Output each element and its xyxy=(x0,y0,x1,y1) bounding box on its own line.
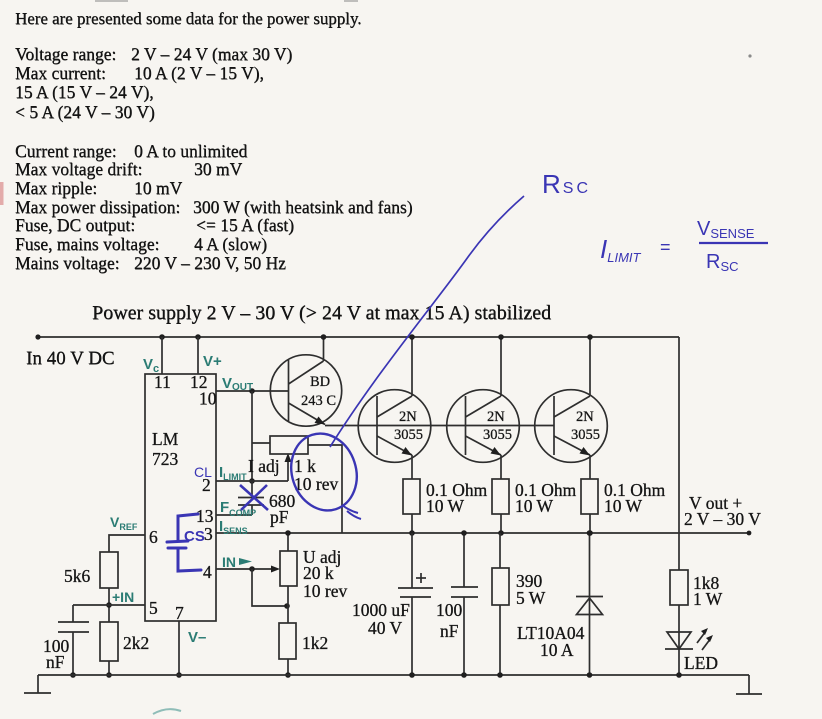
svg-text:IN: IN xyxy=(222,554,236,570)
svg-text:10: 10 xyxy=(199,389,217,409)
svg-text:+IN: +IN xyxy=(112,589,134,605)
svg-text:RSC: RSC xyxy=(542,169,591,199)
value label 100 nF xyxy=(43,636,70,672)
capacitor C2 680pF leads xyxy=(216,481,252,515)
svg-text:100: 100 xyxy=(436,600,463,620)
resistor R10 1k8 body xyxy=(670,570,723,609)
net label V- xyxy=(188,629,206,646)
wire: Q2 emitter to R6 xyxy=(411,455,413,479)
resistor R9 390 5W xyxy=(492,533,546,678)
svg-text:2k2: 2k2 xyxy=(123,633,149,653)
resistor R3 2k2 body xyxy=(100,622,149,661)
svg-text:LM: LM xyxy=(152,429,179,449)
node: pin4 junction xyxy=(249,566,255,572)
resistor R7 0.1 Ohm body xyxy=(492,479,577,516)
annotation: blue leader curve to Rsc xyxy=(330,196,524,447)
svg-text:LED: LED xyxy=(684,653,718,673)
capacitor C4 100nF plates xyxy=(451,587,478,597)
svg-text:10 rev: 10 rev xyxy=(294,474,338,494)
resistor R6 0.1 Ohm body xyxy=(403,479,488,516)
wire: pin6 Vref xyxy=(109,535,145,552)
wire: 2k2 to ground rail xyxy=(106,661,112,678)
capacitor C4 100nF leads xyxy=(461,530,467,678)
annotation: CS capacitor sketch pin13 to pin4 xyxy=(167,514,205,571)
pin 6 xyxy=(149,527,158,547)
svg-text:CL: CL xyxy=(194,464,212,480)
annotation: faint teal squiggle bottom xyxy=(153,709,181,714)
annotation: handwritten Rsc xyxy=(542,169,591,199)
svg-text:10 W: 10 W xyxy=(604,496,643,516)
diode D1 LT10A04 leads xyxy=(587,530,593,678)
svg-text:6: 6 xyxy=(149,527,158,547)
wire: Q3 collector to rail xyxy=(498,334,504,396)
transistor Q4 2N3055 xyxy=(535,390,608,463)
wire: wiper riser with arrow xyxy=(285,453,292,481)
svg-text:VSENSE: VSENSE xyxy=(697,218,755,241)
wire: 1k8 to LED xyxy=(678,605,680,649)
wire: pin2 CL to pot wiper riser xyxy=(216,480,288,482)
transistor Q2 2N3055 xyxy=(358,390,431,463)
net label Vc xyxy=(143,356,159,375)
label I adj 1k 10rev xyxy=(248,456,338,494)
svg-text:1000 uF: 1000 uF xyxy=(352,600,410,620)
svg-text:Vc: Vc xyxy=(143,356,159,375)
net label V+ xyxy=(203,353,222,370)
wire: wiper link to pot bottom xyxy=(252,569,290,609)
node: rail junction pin11 xyxy=(159,334,165,340)
net label Ilimit xyxy=(219,464,247,482)
capacitor C3 1000uF plates xyxy=(398,588,433,597)
resistor R2 5k6 body xyxy=(64,552,118,588)
pin 5 xyxy=(149,598,158,618)
wire: 5k6 bottom to 2k2 xyxy=(108,588,110,622)
svg-text:723: 723 xyxy=(152,449,179,469)
svg-text:RSC: RSC xyxy=(706,251,739,274)
diode D1 symbol xyxy=(576,597,603,615)
annotation: handwritten Ilimit formula xyxy=(600,218,768,274)
wire: pot right terminal down to sense rail xyxy=(308,445,342,533)
svg-text:1k2: 1k2 xyxy=(302,633,328,653)
net label Fcomp xyxy=(220,499,256,518)
svg-text:10 A: 10 A xyxy=(540,640,574,660)
resistor R1 pot I adj 1k body xyxy=(270,436,308,454)
wire: Q1 collector to rail xyxy=(321,334,327,361)
wire: +40V top rail xyxy=(35,334,679,339)
net label +IN xyxy=(112,589,134,605)
svg-text:ISENS: ISENS xyxy=(219,518,248,536)
svg-text:10 rev: 10 rev xyxy=(303,581,347,601)
svg-text:2N: 2N xyxy=(399,409,417,425)
wire: Q4 emitter to R8 xyxy=(589,455,591,479)
resistor R8 0.1 Ohm body xyxy=(581,479,666,516)
capacitor C2 680pF plates xyxy=(238,498,264,506)
ground symbol right xyxy=(736,675,762,694)
net label CL xyxy=(194,464,212,480)
value label LT10A04 10A xyxy=(517,623,585,660)
svg-text:V–: V– xyxy=(188,629,206,646)
pin 4 xyxy=(203,562,212,582)
resistor R5 1k2 body xyxy=(279,623,328,659)
value label 100 nF xyxy=(436,600,463,641)
annotation: blue X over 680pF xyxy=(240,485,268,510)
value label 680 pF xyxy=(269,491,296,527)
svg-text:5: 5 xyxy=(149,598,158,618)
wire: ground rail xyxy=(38,674,749,676)
wire: pin5 to +IN and cap xyxy=(73,604,145,606)
pin 2 xyxy=(202,475,211,495)
value label 1000uF 40V xyxy=(352,600,410,638)
svg-text:VOUT: VOUT xyxy=(222,375,253,393)
capacitor C1 100nF leads xyxy=(70,605,76,678)
capacitor C3 1000uF leads xyxy=(409,533,415,678)
svg-text:1 k: 1 k xyxy=(294,456,316,476)
wire: pin4 to U adj wiper xyxy=(216,566,280,573)
wire: U adj top to sense rail xyxy=(285,530,291,551)
wire: pot left terminal xyxy=(252,442,270,444)
node: +IN junction xyxy=(106,602,112,608)
wire: pin 11 to rail xyxy=(161,337,163,374)
op-amp U1 LM723 body xyxy=(145,374,216,621)
wire: Q3 emitter to R7 xyxy=(500,455,502,479)
LED rays xyxy=(697,628,713,650)
wire: 1k8 branch from top rail xyxy=(678,337,680,570)
wire: R8 to out rail xyxy=(587,514,593,536)
pin 12 xyxy=(190,372,208,392)
wire: LED to ground rail xyxy=(676,649,682,678)
wire: Q4 collector to rail xyxy=(587,334,593,396)
wire: R7 to out rail xyxy=(498,514,504,536)
label V out xyxy=(684,493,761,529)
svg-text:CS: CS xyxy=(184,528,205,545)
wire: Q2 collector to rail xyxy=(409,334,415,396)
svg-text:pF: pF xyxy=(270,507,289,527)
net label Vref xyxy=(110,514,138,532)
wire: base bus to output transistors xyxy=(325,425,554,427)
scan artifact: top edge ticks xyxy=(95,0,358,2)
svg-text:V+: V+ xyxy=(203,353,222,370)
svg-text:3055: 3055 xyxy=(571,427,600,443)
net label IN arrow xyxy=(222,554,252,570)
node: Vout junction xyxy=(249,388,255,394)
svg-text:VREF: VREF xyxy=(110,514,138,532)
svg-text:ILIMIT: ILIMIT xyxy=(219,464,247,482)
svg-text:7: 7 xyxy=(175,603,184,623)
net label Isens xyxy=(219,518,248,536)
wire: Vout down to CL net xyxy=(251,391,253,481)
pin 11 xyxy=(154,372,171,392)
svg-text:40 V: 40 V xyxy=(368,618,403,638)
svg-text:2 V – 30 V: 2 V – 30 V xyxy=(684,509,761,529)
svg-text:5 W: 5 W xyxy=(516,588,546,608)
pin 7 xyxy=(175,603,184,623)
wire: U adj bottom to 1k2 xyxy=(287,586,289,623)
svg-text:3055: 3055 xyxy=(483,427,512,443)
node: rail junction pin12 xyxy=(195,334,201,340)
wire: pin7 to ground xyxy=(176,621,182,678)
net label Vout xyxy=(222,375,253,393)
scan artifact: gray speck xyxy=(748,54,751,57)
annotation: blue ellipse around Rsc pot xyxy=(282,425,367,519)
svg-text:10 W: 10 W xyxy=(515,496,554,516)
wire: pin 12 to rail xyxy=(197,337,199,374)
pin 13 xyxy=(196,506,214,526)
svg-text:5k6: 5k6 xyxy=(64,566,91,586)
svg-text:2N: 2N xyxy=(487,409,505,425)
svg-text:3: 3 xyxy=(204,524,213,544)
polarity plus xyxy=(416,573,426,583)
svg-text:4: 4 xyxy=(203,562,212,582)
label U adj 20k 10rev xyxy=(303,547,347,601)
LED D2 symbol xyxy=(665,632,693,649)
svg-text:20 k: 20 k xyxy=(303,563,334,583)
pin 10 xyxy=(199,389,217,409)
pin 3 xyxy=(204,524,213,544)
svg-text:I adj: I adj xyxy=(248,456,280,476)
transistor Q1 BD243C xyxy=(270,355,341,426)
svg-text:11: 11 xyxy=(154,372,171,392)
label LED xyxy=(684,653,718,673)
svg-text:10 W: 10 W xyxy=(426,496,465,516)
wire: pin10 Vout to Q4 base xyxy=(216,390,289,392)
svg-text:ILIMIT: ILIMIT xyxy=(600,234,642,265)
wire: output sense rail pin3 xyxy=(216,531,751,536)
svg-text:243 C: 243 C xyxy=(301,393,336,409)
svg-text:13: 13 xyxy=(196,506,214,526)
svg-text:1 W: 1 W xyxy=(693,589,723,609)
node: CL junction xyxy=(249,478,255,484)
potentiometer R4 U adj 20k body xyxy=(280,551,297,586)
svg-text:=: = xyxy=(660,237,671,257)
svg-text:2N: 2N xyxy=(576,409,594,425)
svg-text:BD: BD xyxy=(310,374,330,390)
wire: R6 to out rail xyxy=(409,514,415,536)
ground symbol left xyxy=(24,675,51,693)
scan artifact: pink edge smudge xyxy=(0,182,4,205)
capacitor C1 100nF plates xyxy=(58,622,89,632)
transistor Q3 2N3055 xyxy=(447,390,520,463)
svg-text:3055: 3055 xyxy=(394,427,423,443)
svg-text:nF: nF xyxy=(440,621,459,641)
wire: 1k2 to ground rail xyxy=(285,659,291,678)
svg-text:nF: nF xyxy=(46,652,65,672)
